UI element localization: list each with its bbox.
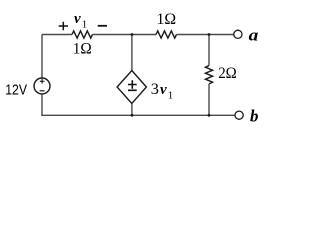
svg-text:1Ω: 1Ω — [73, 41, 92, 58]
wire left branch lower — [41, 94, 43, 115]
svg-text:1: 1 — [82, 19, 88, 31]
wire from R2 to terminal a — [177, 34, 234, 36]
svg-text:a: a — [249, 25, 259, 44]
voltage source V1 12V circle — [34, 78, 50, 94]
wire between R1 and node to R2 — [93, 34, 157, 36]
resistor R1 zigzag 1 ohm top-left — [72, 31, 93, 38]
svg-text:1: 1 — [168, 89, 174, 101]
svg-text:3: 3 — [151, 79, 159, 98]
wire middle branch lower — [131, 104, 133, 116]
wire bottom from left corner to terminal b — [41, 114, 235, 116]
wire right branch upper to resistor R3 — [208, 35, 210, 66]
resistor R3 zigzag 2 ohm vertical — [205, 66, 212, 84]
node junction dot top middle — [131, 33, 134, 36]
wire left branch upper — [41, 35, 43, 79]
svg-text:1Ω: 1Ω — [156, 11, 176, 28]
node junction dot top right — [208, 33, 211, 36]
resistor R2 zigzag 1 ohm top-right — [156, 31, 177, 38]
dependent source U1 diamond 3v1 — [117, 71, 146, 104]
svg-text:v: v — [74, 11, 81, 27]
terminal b open circle — [235, 111, 243, 119]
label plus polarity of v1 — [59, 22, 68, 31]
wire top from node left corner to resistor R1 — [42, 34, 72, 36]
node junction dot bottom middle — [131, 114, 134, 117]
plus-minus symbol inside dependent source — [128, 80, 137, 90]
svg-text:v: v — [160, 82, 167, 98]
label minus polarity of v1 — [98, 25, 107, 27]
wire middle branch upper to dependent source — [131, 35, 133, 71]
minus sign inside source — [40, 90, 45, 92]
terminal a open circle — [234, 30, 242, 38]
wire right branch lower — [208, 84, 210, 115]
svg-text:2Ω: 2Ω — [218, 65, 237, 82]
svg-text:12V: 12V — [5, 81, 27, 98]
node junction dot bottom right — [208, 114, 211, 117]
svg-text:b: b — [250, 106, 258, 125]
plus sign inside source — [40, 79, 45, 84]
